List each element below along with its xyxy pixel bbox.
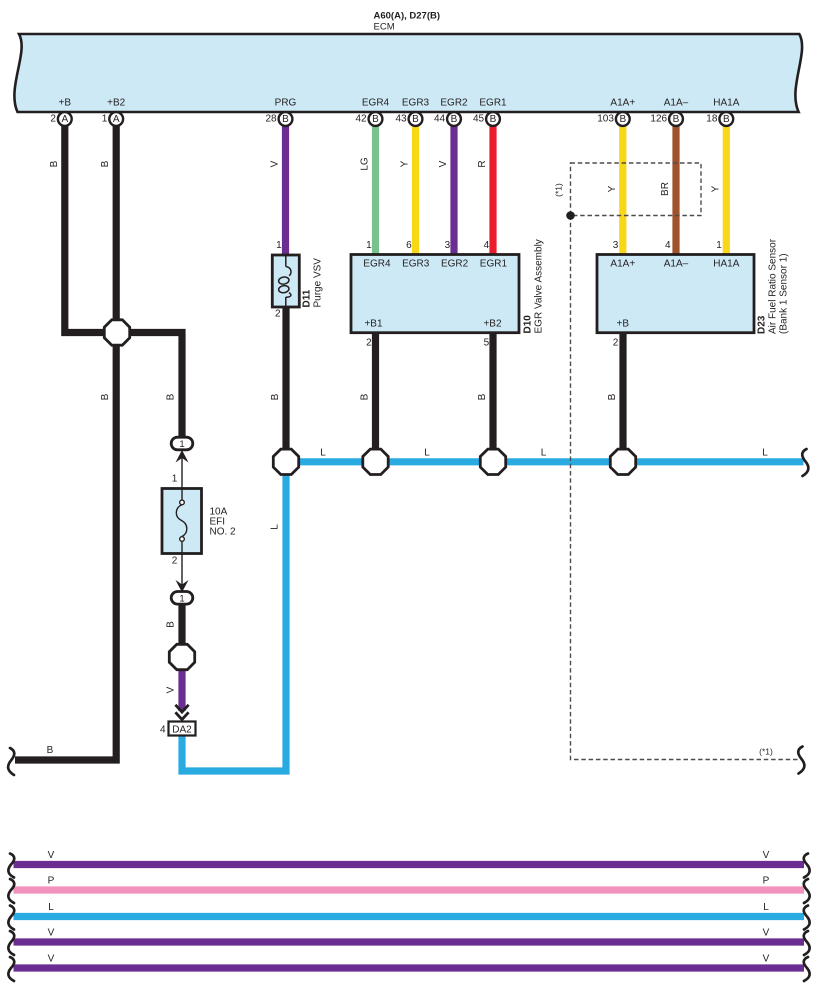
svg-text:LG: LG — [360, 157, 371, 171]
svg-text:L: L — [270, 524, 281, 530]
svg-text:Purge VSV: Purge VSV — [313, 258, 324, 308]
svg-text:B: B — [723, 114, 730, 125]
svg-text:B: B — [412, 114, 419, 125]
svg-text:B: B — [166, 393, 177, 400]
svg-text:126: 126 — [650, 113, 667, 124]
svg-text:A: A — [61, 114, 68, 125]
svg-text:18: 18 — [706, 113, 718, 124]
svg-text:HA1A: HA1A — [713, 98, 739, 109]
svg-text:+B2: +B2 — [107, 98, 126, 109]
svg-text:43: 43 — [395, 113, 407, 124]
svg-text:A1A+: A1A+ — [610, 259, 635, 270]
svg-text:3: 3 — [613, 240, 619, 251]
svg-text:2: 2 — [172, 556, 178, 567]
svg-text:L: L — [424, 448, 430, 459]
svg-text:B: B — [619, 114, 626, 125]
svg-text:1: 1 — [172, 474, 178, 485]
svg-text:D23: D23 — [757, 315, 768, 334]
svg-text:+B: +B — [59, 98, 72, 109]
svg-text:B: B — [451, 114, 458, 125]
svg-text:44: 44 — [434, 113, 446, 124]
svg-text:EGR4: EGR4 — [363, 259, 391, 270]
svg-text:45: 45 — [473, 113, 485, 124]
svg-text:1: 1 — [716, 240, 722, 251]
svg-text:EGR1: EGR1 — [479, 98, 507, 109]
svg-text:B: B — [372, 114, 379, 125]
svg-text:L: L — [320, 448, 326, 459]
svg-text:3: 3 — [445, 240, 451, 251]
svg-text:5: 5 — [484, 337, 490, 348]
svg-text:28: 28 — [265, 113, 277, 124]
svg-text:EGR3: EGR3 — [402, 259, 430, 270]
svg-text:R: R — [477, 160, 488, 167]
svg-text:B: B — [490, 114, 497, 125]
svg-text:B: B — [49, 160, 60, 167]
svg-text:PRG: PRG — [275, 98, 297, 109]
svg-text:BR: BR — [660, 182, 671, 196]
svg-text:L: L — [48, 902, 54, 913]
svg-text:Air Fuel Ratio Sensor: Air Fuel Ratio Sensor — [768, 238, 779, 334]
svg-text:A1A+: A1A+ — [610, 98, 635, 109]
svg-text:V: V — [48, 928, 55, 939]
svg-text:V: V — [763, 850, 770, 861]
svg-text:(Bank 1 Sensor 1): (Bank 1 Sensor 1) — [779, 253, 790, 334]
svg-text:4: 4 — [160, 725, 166, 736]
svg-text:P: P — [48, 876, 55, 887]
svg-text:V: V — [763, 954, 770, 965]
svg-text:L: L — [763, 902, 769, 913]
svg-text:EGR4: EGR4 — [362, 98, 390, 109]
svg-text:(*1): (*1) — [554, 183, 564, 197]
svg-text:A60(A), D27(B): A60(A), D27(B) — [374, 11, 441, 22]
svg-text:V: V — [48, 850, 55, 861]
svg-text:Y: Y — [607, 185, 618, 192]
svg-text:EGR1: EGR1 — [480, 259, 508, 270]
svg-text:P: P — [763, 876, 770, 887]
svg-text:103: 103 — [597, 113, 614, 124]
svg-text:B: B — [270, 393, 281, 400]
svg-text:L: L — [541, 448, 547, 459]
svg-text:A1A–: A1A– — [664, 98, 689, 109]
svg-text:+B1: +B1 — [364, 319, 383, 330]
svg-text:+B: +B — [617, 319, 630, 330]
svg-text:V: V — [270, 160, 281, 167]
svg-text:B: B — [100, 160, 111, 167]
svg-text:V: V — [763, 928, 770, 939]
svg-text:4: 4 — [665, 240, 671, 251]
svg-text:B: B — [477, 393, 488, 400]
svg-text:B: B — [673, 114, 680, 125]
svg-text:B: B — [360, 393, 371, 400]
svg-text:D10: D10 — [523, 315, 534, 334]
svg-text:1: 1 — [276, 240, 282, 251]
svg-text:EGR2: EGR2 — [441, 259, 469, 270]
svg-text:HA1A: HA1A — [713, 259, 739, 270]
svg-text:Y: Y — [400, 160, 411, 167]
svg-text:(*1): (*1) — [759, 747, 773, 757]
svg-text:V: V — [48, 954, 55, 965]
svg-text:A: A — [113, 114, 120, 125]
svg-text:1: 1 — [179, 593, 184, 604]
svg-text:2: 2 — [613, 337, 619, 348]
svg-text:1: 1 — [179, 439, 184, 450]
svg-text:B: B — [282, 114, 289, 125]
svg-text:EGR2: EGR2 — [440, 98, 468, 109]
svg-text:A1A–: A1A– — [664, 259, 689, 270]
svg-text:+B2: +B2 — [483, 319, 502, 330]
svg-text:B: B — [47, 745, 54, 756]
svg-text:B: B — [166, 621, 177, 628]
svg-text:2: 2 — [366, 337, 372, 348]
svg-text:DA2: DA2 — [172, 725, 192, 736]
svg-text:Y: Y — [710, 185, 721, 192]
svg-text:1: 1 — [366, 240, 372, 251]
svg-text:6: 6 — [406, 240, 412, 251]
svg-text:42: 42 — [355, 113, 367, 124]
svg-text:D11: D11 — [302, 289, 313, 307]
svg-text:B: B — [100, 393, 111, 400]
svg-text:V: V — [438, 160, 449, 167]
svg-text:4: 4 — [484, 240, 490, 251]
svg-text:NO. 2: NO. 2 — [210, 527, 237, 538]
svg-text:2: 2 — [275, 309, 281, 320]
svg-text:1: 1 — [102, 113, 108, 124]
svg-text:L: L — [762, 448, 768, 459]
svg-text:2: 2 — [50, 113, 56, 124]
svg-text:V: V — [166, 686, 177, 693]
svg-text:B: B — [607, 393, 618, 400]
svg-text:ECM: ECM — [374, 22, 395, 33]
svg-text:EGR Valve Assembly: EGR Valve Assembly — [534, 239, 545, 333]
svg-text:EGR3: EGR3 — [402, 98, 430, 109]
